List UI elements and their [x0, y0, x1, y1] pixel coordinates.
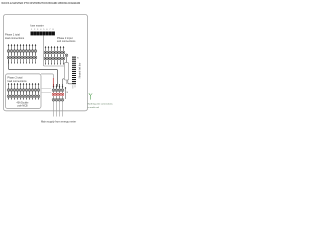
fuse F1 body (cartridge) — [64, 63, 68, 80]
svg-text:pole MCB: pole MCB — [17, 106, 28, 108]
wires: busbar outgoing neutral stubs — [73, 85, 75, 88]
svg-text:40A Double: 40A Double — [17, 102, 30, 105]
svg-text:4: 4 — [40, 29, 42, 31]
fuse F1 top terminal — [65, 54, 68, 57]
wire: red supply drop into main switch — [52, 78, 54, 87]
svg-text:Neutral link bar: Neutral link bar — [79, 63, 82, 79]
svg-text:2: 2 — [34, 29, 36, 31]
svg-text:1: 1 — [31, 29, 33, 31]
svg-text:7: 7 — [49, 29, 51, 31]
wire: phase 1 bus from TB1 to main switch — [9, 60, 58, 87]
svg-text:Earthing wire connections: Earthing wire connections — [88, 103, 114, 106]
svg-text:load connections: load connections — [5, 36, 25, 40]
svg-text:8: 8 — [52, 29, 54, 31]
svg-text:sub connections: sub connections — [57, 39, 76, 43]
enclosure frame (distribution board outline) — [3, 14, 87, 110]
svg-text:6: 6 — [46, 29, 48, 31]
wire: TB3 to main switch lower link — [41, 92, 51, 94]
svg-text:N: N — [67, 92, 69, 94]
earth electrode symbol (green) — [89, 93, 92, 99]
main switch Q1 terminals (incoming supply, red bottoms) — [52, 84, 68, 101]
enclosure box around terminal block TB3 — [5, 74, 41, 109]
fuse strip FS1 — [31, 32, 55, 36]
svg-text:fuse master: fuse master — [30, 23, 43, 27]
svg-text:Main supply from energy meter: Main supply from energy meter — [41, 120, 76, 124]
svg-text:WJ/CS & MASTER PTO DISTRIBUTIO: WJ/CS & MASTER PTO DISTRIBUTION BOARD WI… — [1, 1, 80, 5]
neutral busbar N1 (striped terminal strip) — [72, 57, 76, 85]
wire: fuse body to bottom — [66, 80, 68, 84]
wire: main switch to neutral busbar N1 — [63, 79, 73, 86]
svg-text:5: 5 — [43, 29, 45, 31]
wire: F1 terminal to fuse body — [66, 57, 68, 63]
wires: incoming mains supply conductors through enclosure bottom — [54, 102, 63, 117]
svg-text:to earth rod: to earth rod — [88, 106, 100, 109]
terminal block TB3 (phase 2 total load, two rows of screw terminals) — [7, 83, 40, 100]
wire: fuse strip to TB2 underside (L-shaped) — [44, 36, 65, 67]
wire: TB3 to main switch upper link — [41, 88, 51, 90]
terminal block TB1 (phase 1, two rows of screw terminals) — [7, 44, 37, 64]
terminal block TB2 (phase 2 input, two rows of screw terminals) — [44, 46, 65, 65]
wire: TB3 box top to main switch (red drop) — [41, 74, 53, 78]
svg-text:3: 3 — [37, 29, 39, 31]
svg-text:N: N — [77, 58, 79, 60]
svg-text:load connections: load connections — [7, 79, 27, 83]
